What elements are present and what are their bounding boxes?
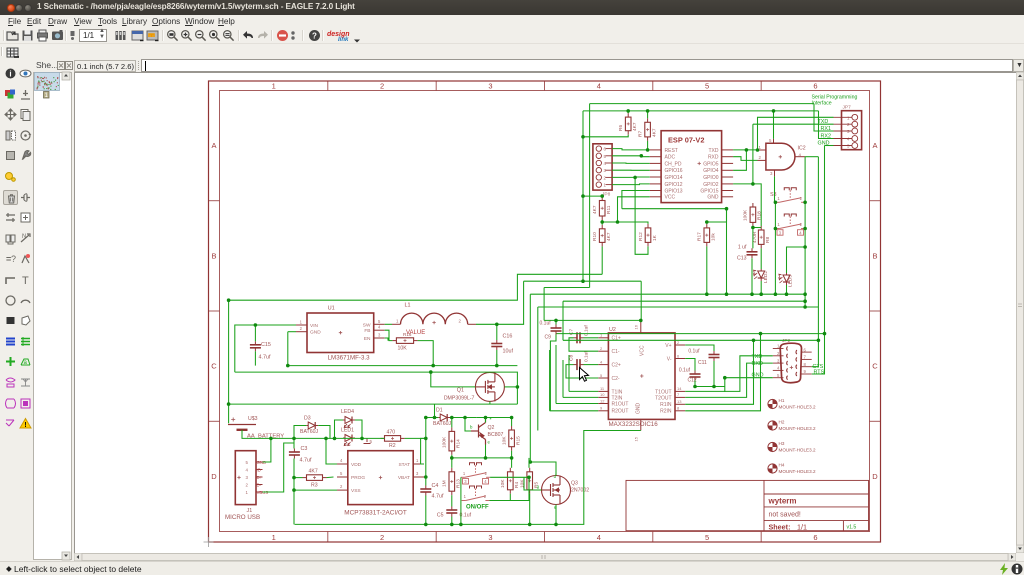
svg-text:GND: GND [310,330,321,336]
switch S2 [461,463,490,478]
svg-text:U$3: U$3 [248,416,258,422]
svg-text:MAX3232SOIC16: MAX3232SOIC16 [609,421,659,428]
wire EN feedback rail [235,372,518,404]
capacitor C8 0.1uf [574,359,584,370]
wire R10 bottom [601,246,603,274]
wire gnd stub [724,378,726,392]
svg-text:10K: 10K [398,346,408,352]
switch S1 ON/OFF [462,486,490,501]
wire JP8-5 to ADC [612,155,650,158]
wire C9 bottom [550,335,556,411]
wire Q2 collector [485,418,487,423]
wire C3 bottom / R3 gnd [293,459,295,525]
mount hole H3 MOUNT-HOLE3.2 [768,442,777,451]
svg-text:10: 10 [600,392,605,397]
junction [723,376,727,380]
svg-text:RXD: RXD [708,155,719,161]
wire S2/S1 left down [460,477,462,524]
svg-text:R2IN: R2IN [660,409,672,415]
wire GPIO4 jog up to TXD [733,150,746,170]
junction [360,437,364,441]
svg-text:C15: C15 [261,342,271,348]
svg-text:C13: C13 [737,256,747,262]
svg-text:4: 4 [600,359,603,364]
svg-text:10k: 10k [711,233,717,241]
wire LED2 bottom [760,281,762,294]
svg-text:VSS: VSS [351,488,361,494]
wire JP8-1 to GPIO12 [612,183,650,186]
wire S2 right [490,476,529,478]
LED LED2 [754,269,765,281]
resistor R3 4K7 [303,475,327,481]
svg-text:VCC: VCC [665,195,676,201]
gate IC2 74xx AND gate [766,143,795,170]
IC U3 ESP 07-V2 module [661,131,722,203]
svg-text:SW: SW [363,322,371,328]
connector JP7 [842,111,862,150]
wire C4 bottom [425,496,427,525]
wire 3V3 to MAX VCC [640,281,642,320]
svg-text:R1IN: R1IN [660,402,672,408]
svg-text:C1-: C1- [612,349,620,355]
svg-text:C3: C3 [301,446,308,452]
wire CTS vertical [817,157,819,341]
wire ESP RXD to IC2-2 [733,157,757,161]
svg-text:D1: D1 [436,408,443,414]
junction [510,456,514,460]
svg-text:e: e [488,440,491,445]
wire C12 bottom [694,381,696,387]
wire IC2 out right [805,156,818,158]
wire Q2 base [465,418,471,432]
wire VIN [235,325,296,372]
junction [803,201,807,205]
svg-text:VBAT: VBAT [398,475,410,481]
svg-text:L1: L1 [405,303,411,309]
svg-text:6: 6 [677,353,680,358]
diode D3 BAT60J [306,422,318,429]
svg-text:BC807: BC807 [488,432,504,438]
wire R13 top stub [451,471,453,473]
wire TXD2 to JP7-2 [753,123,834,125]
svg-text:Interface: Interface [812,101,832,107]
wire VBAT pin [424,476,426,478]
svg-text:5: 5 [705,533,709,542]
junction [823,332,827,336]
junction [459,523,463,527]
IC U4 MCP73831T-2ACI/OT [348,451,413,505]
svg-text:3: 3 [416,471,419,476]
svg-text:R1OUT: R1OUT [612,401,629,407]
wire bus v5 [543,288,545,321]
svg-text:R18: R18 [757,211,763,220]
wire CTS row [563,339,818,341]
svg-text:GPIO2: GPIO2 [703,182,719,188]
wire R15 bottom [511,451,513,468]
svg-text:V-: V- [667,356,672,362]
wire Q3 gate [524,477,542,490]
wire GND rail mid [288,365,518,367]
menu bar [0,15,1024,28]
capacitor C12 0.1uf [690,371,701,381]
svg-text:1: 1 [300,320,303,325]
wire battery- to LED rail [242,430,385,439]
svg-text:4: 4 [799,230,802,235]
svg-text:R4: R4 [514,482,520,488]
svg-text:5: 5 [370,439,373,444]
command row: sheets tab + coord display + command input [0,59,1024,72]
capacitor C5 0.1uf [446,507,457,517]
status bar [0,561,1024,575]
mount hole H4 MOUNT-HOLE3.2 [768,464,777,473]
svg-text:5: 5 [378,319,381,324]
junction [527,476,531,480]
svg-text:LED2: LED2 [763,271,769,283]
svg-text:ID: ID [257,468,261,473]
wire R8 to LED2 [760,248,762,269]
svg-text:Sheet:: Sheet: [769,522,791,531]
wire bus v4 [537,307,539,431]
wire top rail 2 [583,110,819,112]
wire IC2-3 to S3 [774,176,776,202]
wire Q1 bottom [489,401,491,404]
junction [424,523,428,527]
svg-text:0.1uf: 0.1uf [540,321,552,327]
wire R3 to PROG [327,476,334,479]
junction [639,319,643,323]
wire D3 cathode [318,426,330,439]
svg-text:H1: H1 [779,398,785,403]
svg-text:1: 1 [396,319,399,324]
svg-text:A: A [211,141,216,150]
wire R2IN to RTS [685,334,760,411]
wire cap gnd row [695,386,725,388]
wire C3 top [293,438,295,448]
junction [725,207,729,211]
title block [626,480,869,530]
wire D1 cathode to Q2 [450,417,476,419]
mount hole H1 MOUNT-HOLE3.2 [768,399,777,408]
horizontal scrollbar [74,553,1016,561]
svg-text:T2IN: T2IN [612,395,623,401]
svg-text:4.7uf: 4.7uf [432,494,444,500]
svg-text:U1: U1 [328,306,335,312]
wire bus h5 [544,287,590,289]
wire R18 to C13 [752,226,754,248]
LED LED4 [343,417,355,428]
LED LED1 [343,435,355,446]
resistor R2 470 [381,436,405,442]
junction [756,148,760,152]
svg-text:ON/OFF: ON/OFF [466,504,489,510]
resistor R6 4K7 [625,113,631,135]
wire pullup rail [622,208,727,210]
connector J1 MICRO USB [235,451,256,505]
svg-text:JP7: JP7 [843,105,852,111]
resistor R5 10K [527,468,533,494]
capacitor C13 1uf [747,248,758,258]
capacitor C9 0.1uf [551,325,562,335]
svg-text:CH_PD: CH_PD [665,161,682,167]
svg-text:R14: R14 [456,439,462,448]
wire R16 to GND rail [418,341,434,366]
svg-text:D-: D- [257,483,262,488]
junction [424,475,428,479]
svg-text:MOUNT-HOLE3.2: MOUNT-HOLE3.2 [779,448,816,453]
wire RTS to DB9 [812,334,825,374]
wire R15 top [511,418,513,427]
svg-text:R6: R6 [618,125,624,131]
junction [803,305,807,309]
svg-text:REST: REST [665,148,678,154]
svg-text:2: 2 [800,196,803,201]
svg-text:MICRO USB: MICRO USB [225,514,260,521]
svg-text:2N7002: 2N7002 [571,488,589,494]
wire U1 GND down [287,332,289,366]
svg-text:2: 2 [600,346,603,351]
svg-text:*: * [490,418,492,424]
svg-text:B: B [872,252,877,261]
wire C7 to C1+ [584,337,599,339]
svg-text:2: 2 [380,533,384,542]
svg-text:3: 3 [488,82,492,91]
svg-text:10K: 10K [500,479,506,488]
svg-text:R16: R16 [403,332,412,337]
svg-text:13: 13 [677,399,682,404]
junction [759,332,763,336]
svg-text:8: 8 [677,406,680,411]
svg-text:DMP3099L-7: DMP3099L-7 [444,396,475,402]
svg-text:B: B [211,252,216,261]
wire R14 bottom [451,455,453,468]
junction [529,460,533,464]
junction [646,109,650,113]
diode D1 BAT60J [438,414,450,421]
wire RX1 to JP7-3 [814,104,834,131]
svg-text:C: C [211,362,217,371]
svg-text:5: 5 [769,138,772,143]
schematic canvas [74,72,1016,553]
svg-text:C11: C11 [698,360,707,366]
svg-text:VDD: VDD [351,462,362,468]
svg-text:R2OUT: R2OUT [612,409,629,415]
svg-text:GND: GND [636,403,642,415]
junction [640,154,644,158]
wire VBAT vertical to C4 [425,418,427,486]
wire R5 top [528,458,530,468]
svg-text:1 uf: 1 uf [738,245,747,251]
wire bus h3 [530,293,805,295]
wire R13 to C5 [451,495,453,506]
wire J1 VBUS [263,443,295,492]
transistor Q3 2N7002 (N-MOSFET) [542,476,571,505]
svg-text:LED1: LED1 [341,428,354,434]
svg-text:D+: D+ [257,475,263,480]
svg-text:10K: 10K [501,436,507,445]
resistor R14 100K [449,427,455,455]
junction [424,437,428,441]
svg-text:2: 2 [459,319,462,324]
svg-text:MCP73831T-2ACI/OT: MCP73831T-2ACI/OT [344,510,407,517]
wire bus h4 [538,306,819,308]
junction [292,437,296,441]
wire JP8-2 to GPIO14 [612,176,650,178]
wire R6 top [627,111,629,113]
svg-text:D: D [211,472,217,481]
svg-text:GPIO16: GPIO16 [665,168,683,174]
svg-text:4K7: 4K7 [651,128,657,137]
svg-text:5: 5 [600,373,603,378]
wire R12 bottom loop [635,177,648,254]
svg-text:9: 9 [600,406,603,411]
svg-text:4: 4 [777,366,780,371]
svg-text:0.1uf: 0.1uf [688,349,700,355]
wire R1OUT [556,403,598,405]
svg-text:TXD: TXD [709,148,719,154]
wire L1 to C16 to 3V3 riser [476,281,524,324]
wire C15 bottom [254,351,256,365]
wire ESP TXD to IC2-1 [733,149,757,151]
svg-text:H2: H2 [779,420,785,425]
wire CTS to DB9 [812,340,819,366]
svg-text:2: 2 [380,82,384,91]
svg-text:1M: 1M [442,480,448,487]
svg-text:wyterm: wyterm [768,497,797,506]
junction [227,402,231,406]
switch S3 [775,188,805,203]
mount hole H2 MOUNT-HOLE3.2 [768,421,777,430]
svg-text:5: 5 [777,373,780,378]
wire C7 loop to C1- [569,338,598,351]
svg-text:2: 2 [484,494,487,499]
svg-text:3: 3 [378,333,381,338]
junction [616,220,620,224]
wire C16 bottom [496,350,498,366]
svg-text:1/1: 1/1 [797,522,807,531]
svg-text:GPIO15: GPIO15 [700,188,718,194]
junction [484,456,488,460]
battery U$3 AA_BATTERY [228,425,256,438]
wire TXD to JP7-1 [758,117,834,150]
wire S3-S4 left [774,202,777,228]
junction [495,364,499,368]
capacitor C7 0.1uf [574,332,584,343]
svg-text:R7: R7 [637,131,643,137]
svg-text:2: 2 [485,471,488,476]
junction [450,416,454,420]
svg-text:470: 470 [387,430,396,436]
junction [705,292,709,296]
svg-text:10K: 10K [520,479,526,488]
svg-text:100K: 100K [743,209,749,221]
resistor R18 100K [750,203,756,226]
junction [693,385,697,389]
svg-text:1: 1 [464,494,467,499]
svg-text:0.1uf: 0.1uf [584,351,590,362]
wire mid node row [452,457,512,459]
svg-text:3: 3 [777,358,780,363]
wire VCC MAX [544,319,641,321]
svg-text:GPIO5: GPIO5 [703,161,719,167]
wire C15 top [254,325,256,341]
svg-text:GPIO4: GPIO4 [703,168,719,174]
LED LED5 [779,273,790,285]
svg-text:LED4: LED4 [341,409,354,415]
resistor R4 10K [508,468,514,494]
junction [750,292,754,296]
svg-text:1: 1 [777,222,780,227]
svg-text:JP2: JP2 [782,338,791,344]
svg-text:PROG: PROG [351,475,365,481]
wire IC2 out down [804,157,806,307]
svg-text:1: 1 [463,471,466,476]
svg-text:9: 9 [804,369,807,374]
junction [431,364,435,368]
svg-text:EN: EN [364,336,371,342]
wire R17 top [706,222,708,224]
junction [424,416,428,420]
junction [803,245,807,249]
svg-text:C16: C16 [503,334,513,340]
junction [433,416,437,420]
svg-text:3: 3 [488,533,492,542]
junction [286,364,290,368]
toolbar row 2 (grid icon) [0,45,1024,58]
wire left drop [589,104,591,288]
junction [324,437,328,441]
wire C13 bottom [751,258,753,294]
svg-text:R10: R10 [592,232,598,241]
svg-text:7: 7 [677,392,680,397]
resistor R11 4K7 [599,197,605,221]
vertical scrollbar [1016,72,1024,553]
wire R11 top [601,195,603,197]
wire R1OUT up [555,345,557,404]
svg-text:0.1uf: 0.1uf [584,325,590,336]
resistor R15 10K [509,426,515,451]
svg-text:T2OUT: T2OUT [655,395,671,401]
wire S4 left down [774,229,776,295]
wire R1IN to CTS [685,340,753,404]
junction [292,488,296,492]
wire bus v7 [562,301,564,340]
svg-text:R8: R8 [765,237,771,243]
svg-text:LM3671MF-3.3: LM3671MF-3.3 [328,354,371,361]
svg-text:4: 4 [597,533,601,542]
wire R5 bottom [529,494,531,525]
wire R17 to rail [707,209,727,222]
wire T2OUT to DB9 RXD [685,363,773,397]
wire R4 bottom [509,494,511,501]
junction [581,135,585,139]
wire ground rail bottom [295,431,641,525]
svg-text:2: 2 [300,326,303,331]
svg-text:R11: R11 [606,205,612,214]
svg-text:A: A [872,141,877,150]
junction [600,194,604,198]
svg-text:ADC: ADC [665,155,676,161]
junction [450,456,454,460]
wire JP8-4 [612,162,650,164]
junction [751,226,755,230]
svg-text:BAT60J: BAT60J [300,429,318,435]
resistor R7 4K7 [645,118,651,141]
svg-text:GPIO13: GPIO13 [665,188,683,194]
wire bus v3 [529,294,531,462]
svg-text:12: 12 [600,398,605,403]
svg-text:4: 4 [484,479,487,484]
wire LED5 bottom [786,285,788,294]
